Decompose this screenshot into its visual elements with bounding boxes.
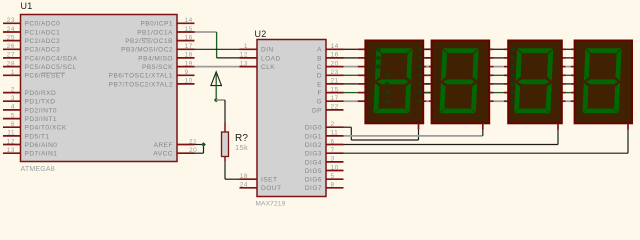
display 1 pin stub row 4 [358,57,366,59]
display 3 left stub row 8 [504,92,508,94]
wire AVCC vertical [203,145,205,154]
U2 pin 23 (D) stub [326,74,344,76]
display 2 right stub row 5 [489,66,493,68]
wire AVCC horizontal [195,152,204,154]
wire segment row 5 gap display1-2 [423,66,431,68]
resistor R1 bottom lead [224,157,226,162]
wire DIG3 vertical up [627,130,629,154]
display 1 left pin marker row 8 [385,90,390,95]
wire LOAD net: U1 PB1 horizontal (gray) [195,31,217,33]
display 3 right stub row 5 [562,66,566,68]
U1 pin 17 (PB3/MOSI/OC2) stub [177,48,195,50]
display 3 left pin marker row 4 [511,55,516,60]
svg-text:6: 6 [11,121,15,128]
display 1 right pin marker row 9 [418,99,423,104]
wire segment row 4 U2 to display 1 [344,57,358,59]
svg-text:10: 10 [185,78,193,85]
wire colored mid gap1 row 7 [426,83,429,85]
U1 pin 28 (PC5/ADC5/SCL) stub [3,66,21,68]
display 3 segment E [514,83,520,113]
svg-text:PC4/ADC4/SDA: PC4/ADC4/SDA [25,55,78,62]
display 4 segment D [583,109,619,114]
wire segment row 7 U2 to display 1 [344,83,358,85]
junction dot power node [214,98,219,103]
svg-text:20: 20 [331,60,339,67]
display 3 segment A [517,48,553,53]
U2 pin 11 (DIG1) stub [326,135,344,137]
U1 pin 9 (PB6/TOSC1/XTAL1) stub [177,74,195,76]
wire segment row 3 gap display2-3 [494,48,505,50]
display 3 common pin stub [557,123,559,129]
svg-text:19: 19 [185,60,193,67]
display 3 left pin marker row 9 [511,99,516,104]
wire power to junction (green) [215,74,217,100]
svg-text:21: 21 [331,78,339,85]
svg-text:AREF: AREF [154,142,173,149]
wire segment row 3 U2 to display 1 [344,48,358,50]
U1 pin 13 (PD7/AIN1) stub [3,152,21,154]
display 4 left stub row 4 [571,57,575,59]
display 1 right pin marker row 4 [418,55,423,60]
display 2 right stub row 8 [489,92,493,94]
display 3 left pin marker row 6 [511,73,516,78]
display 1 left pin marker row 4 [376,55,381,60]
U2 pin 22 (DP) stub [326,109,344,111]
display 1 right pin marker row 7 [418,81,423,86]
display 2 common pin stub [482,123,484,129]
svg-text:12: 12 [240,52,248,59]
svg-text:U2: U2 [255,29,267,39]
svg-text:MAX7219: MAX7219 [256,201,286,208]
svg-text:PB6/TOSC1/XTAL1: PB6/TOSC1/XTAL1 [109,73,173,80]
svg-text:12: 12 [7,138,15,145]
U1 pin 21 (AREF) stub [177,144,195,146]
svg-text:PC1/ADC1: PC1/ADC1 [25,29,61,36]
U2 pin 2 (DIG0) stub [326,126,344,128]
svg-text:AVCC: AVCC [153,151,173,158]
wire LOAD net: vertical (green) [216,32,218,58]
display 3 left stub row 9 [504,100,508,102]
svg-text:PC5/ADC5/SCL: PC5/ADC5/SCL [25,64,77,71]
U1 pin 24 (PC1/ADC1) stub [3,31,21,33]
wire segment row 6 U2 to display 1 [344,74,358,76]
U2 pin 10 (DIG5) stub [326,170,344,172]
display 1 right pin marker row 6 [418,73,423,78]
U2 pin 18 (ISET) stub [240,178,258,180]
svg-text:17: 17 [185,43,193,50]
display 4 segment B [615,49,621,81]
wire segment row 6 gap display2-3 [494,74,505,76]
junction dot AREF/AVCC [201,142,206,147]
display 3 left stub row 7 [504,83,508,85]
display 1 pin stub row 3 [358,48,366,50]
wire DIG2 vertical up [557,130,559,145]
svg-text:DIG0: DIG0 [305,125,322,132]
wire down to resistor (black) [224,100,226,123]
display 4 segment C [614,83,620,113]
display 4 left stub row 8 [571,92,575,94]
U1 pin 6 (PD4/T0/XCK) stub [3,126,21,128]
svg-text:18: 18 [185,52,193,59]
svg-text:18: 18 [240,173,248,180]
svg-text:PD0/RXD: PD0/RXD [25,90,57,97]
display 3 right stub row 6 [562,74,566,76]
U2 pin 16 (B) stub [326,57,344,59]
wire colored mid gap1 row 3 [426,48,429,50]
U1 pin 27 (PC4/ADC4/SDA) stub [3,57,21,59]
wire segment row 3 gap display1-2 [423,48,431,50]
U2 pin 5 (DIG6) stub [326,178,344,180]
svg-text:24: 24 [240,182,248,189]
wire DIG0 vertical down [350,127,352,140]
display 1 pin stub row 6 [358,74,366,76]
display 1 segment C [405,83,411,113]
svg-text:DIG4: DIG4 [305,159,322,166]
svg-text:5: 5 [11,112,15,119]
wire segment row 9 U2 to display 1 [344,100,358,102]
svg-text:PB4/MISO: PB4/MISO [138,55,173,62]
wire DIG1 vertical up [482,130,484,136]
wire segment row 4 gap display2-3 [494,57,505,59]
display 1 common pin stub [418,123,420,129]
svg-text:DOUT: DOUT [261,185,281,192]
U1 pin 25 (PC2/ADC2) stub [3,40,21,42]
wire CLK net: U1 PB5 to U2 pin 13 (gray) [195,66,240,68]
wire junction to resistor (gray) [216,99,225,101]
U2 pin 17 (G) stub [326,100,344,102]
display 2 segment E [440,83,446,113]
U2 pin 21 (E) stub [326,83,344,85]
display 3 right stub row 3 [562,48,566,50]
U1 pin 16 (PB2/SS/OC1B) stub [177,40,195,42]
svg-text:3: 3 [331,156,335,163]
power symbol arrow [211,72,222,86]
wire segment row 8 gap display2-3 [494,92,505,94]
svg-text:23: 23 [331,69,339,76]
U1 pin 2 (PD0/RXD) stub [3,92,21,94]
wire colored mid gap1 row 6 [426,74,429,76]
display 1 segment G [377,79,409,84]
svg-text:DIG5: DIG5 [305,168,322,175]
display 3 left stub row 6 [504,74,508,76]
U1 pin 20 (AVCC) stub [177,152,195,154]
wire segment row 7 gap display2-3 [494,83,505,85]
svg-text:DIG2: DIG2 [305,142,322,149]
display 4 left stub row 6 [571,74,575,76]
display 2 right stub row 9 [489,100,493,102]
display 1 right pin marker row 5 [418,64,423,69]
svg-text:PD3/INT1: PD3/INT1 [25,116,58,123]
U1 pin 5 (PD3/INT1) stub [3,118,21,120]
svg-text:PD1/TXD: PD1/TXD [25,99,56,106]
display 4 segment A [586,48,622,53]
wire segment row 9 gap display2-3 [494,100,505,102]
svg-text:LOAD: LOAD [261,55,281,62]
display 1 left pin marker row 9 [385,99,390,104]
U2 pin 1 (DIN) stub [240,48,258,50]
wire segment row 7 gap display3-4 [566,83,571,85]
display 3 right stub row 9 [562,100,566,102]
U1 pin 18 (PB4/MISO) stub [177,57,195,59]
svg-text:22: 22 [331,104,339,111]
U1 pin 1 (PC6/RESET) stub [3,74,21,76]
7-segment display 1 body [365,41,423,124]
svg-text:15k: 15k [235,143,248,152]
svg-text:PD7/AIN1: PD7/AIN1 [25,151,58,158]
display 2 segment F [441,49,447,81]
svg-text:PD5/T1: PD5/T1 [25,133,50,140]
display 4 common pin stub [627,123,629,129]
display 3 segment B [547,49,553,81]
7-segment display 4 body [575,41,632,124]
svg-text:PD4/T0/XCK: PD4/T0/XCK [25,125,67,132]
display 3 left pin marker row 7 [511,81,516,86]
display 4 segment F [584,49,590,81]
display 2 segment A [443,48,479,53]
svg-text:27: 27 [7,52,15,59]
U2 pin 14 (A) stub [326,48,344,50]
svg-text:DIG6: DIG6 [305,177,322,184]
display 2 right stub row 6 [489,74,493,76]
display 3 right stub row 8 [562,92,566,94]
wire colored mid gap1 row 5 [426,66,429,68]
U2 pin 24 (DOUT) stub [240,187,258,189]
svg-text:D: D [317,73,322,80]
svg-text:3: 3 [11,95,15,102]
resistor R? body [222,132,229,157]
svg-text:24: 24 [7,26,15,33]
wire DIG0 from U2 [344,126,352,128]
svg-text:4: 4 [11,104,15,111]
U2 pin 3 (DIG4) stub [326,161,344,163]
resistor R1 top lead [224,123,226,133]
svg-text:11: 11 [7,130,15,137]
display 3 left stub row 4 [504,57,508,59]
wire segment row 7 gap display1-2 [423,83,431,85]
display 4 segment E [582,83,588,113]
wire segment row 8 U2 to display 1 [344,92,358,94]
svg-text:1: 1 [244,43,248,50]
svg-text:PB0/ICP1: PB0/ICP1 [140,21,173,28]
display 1 left pin marker row 7 [385,81,390,86]
wire DIN net: U1 PB3 to U2 pin 1 (black) [195,48,240,50]
svg-text:PD6/AIN0: PD6/AIN0 [25,142,58,149]
wire DIG0 horizontal [351,139,418,141]
7-segment display 3 body [508,41,562,124]
svg-text:7: 7 [331,147,335,154]
display 1 segment B [406,49,412,81]
display 1 pin stub row 5 [358,66,366,68]
U1 pin 14 (PB0/ICP1) stub [177,22,195,24]
display 3 left pin marker row 5 [511,64,516,69]
display 1 left pin marker row 5 [376,64,381,69]
wire segment row 6 gap display3-4 [566,74,571,76]
display 1 segment E [373,83,379,113]
svg-text:23: 23 [7,17,15,24]
wire segment row 5 gap display2-3 [494,66,505,68]
svg-text:DIG3: DIG3 [305,151,322,158]
wire segment row 9 gap display3-4 [566,100,571,102]
svg-text:PB1/OC1A: PB1/OC1A [137,29,173,36]
svg-text:28: 28 [7,60,15,67]
display 1 pin stub row 8 [358,92,366,94]
U2 pin 13 (CLK) stub [240,66,258,68]
svg-text:PB5/SCK: PB5/SCK [142,64,173,71]
svg-text:9: 9 [185,69,189,76]
svg-text:13: 13 [7,147,15,154]
svg-text:PC3/ADC3: PC3/ADC3 [25,47,61,54]
svg-text:16: 16 [331,52,339,59]
wire segment row 8 gap display3-4 [566,92,571,94]
svg-text:PD2/INT0: PD2/INT0 [25,107,58,114]
display 1 pin stub row 7 [358,83,366,85]
display 2 segment B [472,49,478,81]
7-segment display 2 body [432,41,490,124]
svg-text:E: E [317,81,322,88]
display 3 right stub row 7 [562,83,566,85]
display 1 segment D [374,109,410,114]
svg-text:16: 16 [185,34,193,41]
wire colored mid gap1 row 4 [426,57,429,59]
svg-text:17: 17 [331,95,339,102]
wire segment row 6 gap display1-2 [423,74,431,76]
svg-text:25: 25 [7,34,15,41]
svg-text:F: F [318,90,322,97]
wire DIG3 horizontal [344,152,629,154]
display 1 left pin marker row 6 [385,73,390,78]
svg-text:14: 14 [331,43,339,50]
wire segment row 4 gap display3-4 [566,57,571,59]
svg-text:10: 10 [331,164,339,171]
svg-text:ISET: ISET [261,177,277,184]
svg-text:PB2/SS/OC1B: PB2/SS/OC1B [125,38,173,45]
display 1 right pin marker row 8 [418,90,423,95]
IC U1 ATMEGA8 body [21,15,178,162]
U1 pin 12 (PD6/AIN0) stub [3,144,21,146]
display 2 segment C [471,83,477,113]
U2 pin 15 (F) stub [326,92,344,94]
svg-text:B: B [317,55,322,62]
U2 pin 7 (DIG3) stub [326,152,344,154]
display 2 segment D [440,109,476,114]
wire LOAD net: into U2 pin 12 (black) [217,57,240,59]
display 3 left pin marker row 8 [511,90,516,95]
svg-text:1: 1 [11,69,15,76]
IC U2 MAX7219 body [257,40,326,197]
svg-text:G: G [316,99,322,106]
display 3 left pin marker row 3 [511,47,516,52]
display 3 segment C [546,83,552,113]
wire DIG1 horizontal (gray) [344,135,483,137]
display 3 left stub row 5 [504,66,508,68]
wire DIG0 vertical up [418,130,420,141]
U2 pin 8 (DIG7) stub [326,187,344,189]
svg-text:ATMEGA8: ATMEGA8 [21,166,55,173]
wire DIG2 horizontal [344,144,559,146]
svg-text:15: 15 [185,26,193,33]
svg-text:C: C [317,64,322,71]
display 2 right stub row 7 [489,83,493,85]
U2 pin 6 (DIG2) stub [326,144,344,146]
svg-text:13: 13 [240,60,248,67]
svg-text:6: 6 [331,138,335,145]
U2 pin 12 (LOAD) stub [240,57,258,59]
wire AREF [195,144,204,146]
svg-text:DIG7: DIG7 [305,185,322,192]
display 4 left stub row 9 [571,100,575,102]
U1 pin 26 (PC3/ADC3) stub [3,48,21,50]
display 3 left stub row 3 [504,48,508,50]
display 1 pin stub row 9 [358,100,366,102]
svg-text:5: 5 [331,173,335,180]
svg-text:PC0/ADC0: PC0/ADC0 [25,21,61,28]
svg-text:CLK: CLK [261,64,275,71]
svg-text:14: 14 [185,17,193,24]
svg-text:2: 2 [331,121,335,128]
display 1 left pin marker row 3 [376,47,381,52]
wire segment row 4 gap display1-2 [423,57,431,59]
wire colored mid gap1 row 8 [426,92,429,94]
display 4 segment G [586,79,618,84]
display 2 right stub row 3 [489,48,493,50]
display 1 segment A [377,48,413,53]
wire segment row 5 U2 to display 1 [344,66,358,68]
wire segment row 8 gap display1-2 [423,92,431,94]
svg-text:DIG1: DIG1 [305,133,322,140]
display 4 left stub row 3 [571,48,575,50]
display 4 left stub row 5 [571,66,575,68]
display 2 right stub row 4 [489,57,493,59]
svg-text:PC2/ADC2: PC2/ADC2 [25,38,61,45]
svg-text:PB3/MOSI/OC2: PB3/MOSI/OC2 [121,47,173,54]
display 1 right pin marker row 3 [418,47,423,52]
svg-text:11: 11 [331,130,339,137]
display 1 segment F [375,49,381,81]
svg-text:PC6/RESET: PC6/RESET [25,73,66,80]
wire resistor to ISET horizontal [225,178,240,180]
U1 pin 11 (PD5/T1) stub [3,135,21,137]
U1 pin 15 (PB1/OC1A) stub [177,31,195,33]
svg-text:26: 26 [7,43,15,50]
display 2 segment G [443,79,475,84]
svg-text:PB7/TOSC2/XTAL2: PB7/TOSC2/XTAL2 [109,81,173,88]
display 3 segment F [516,49,522,81]
U2 pin 20 (C) stub [326,66,344,68]
svg-text:U1: U1 [21,1,33,11]
svg-text:8: 8 [331,182,335,189]
svg-text:DIN: DIN [261,47,274,54]
wire segment row 9 gap display1-2 [423,100,431,102]
wire segment row 5 gap display3-4 [566,66,571,68]
display 3 segment D [515,109,551,114]
U1 pin 23 (PC0/ADC0) stub [3,22,21,24]
display 4 left stub row 7 [571,83,575,85]
wire resistor to ISET vertical [224,161,226,179]
U1 pin 10 (PB7/TOSC2/XTAL2) stub [177,83,195,85]
wire colored mid gap1 row 9 [426,100,429,102]
svg-text:2: 2 [11,86,15,93]
svg-text:A: A [317,47,322,54]
display 3 right stub row 4 [562,57,566,59]
svg-text:DP: DP [312,107,322,114]
U1 pin 19 (PB5/SCK) stub [177,66,195,68]
display 3 segment G [517,79,549,84]
wire segment row 3 gap display3-4 [566,48,571,50]
svg-text:15: 15 [331,86,339,93]
U1 pin 4 (PD2/INT0) stub [3,109,21,111]
U1 pin 3 (PD1/TXD) stub [3,100,21,102]
